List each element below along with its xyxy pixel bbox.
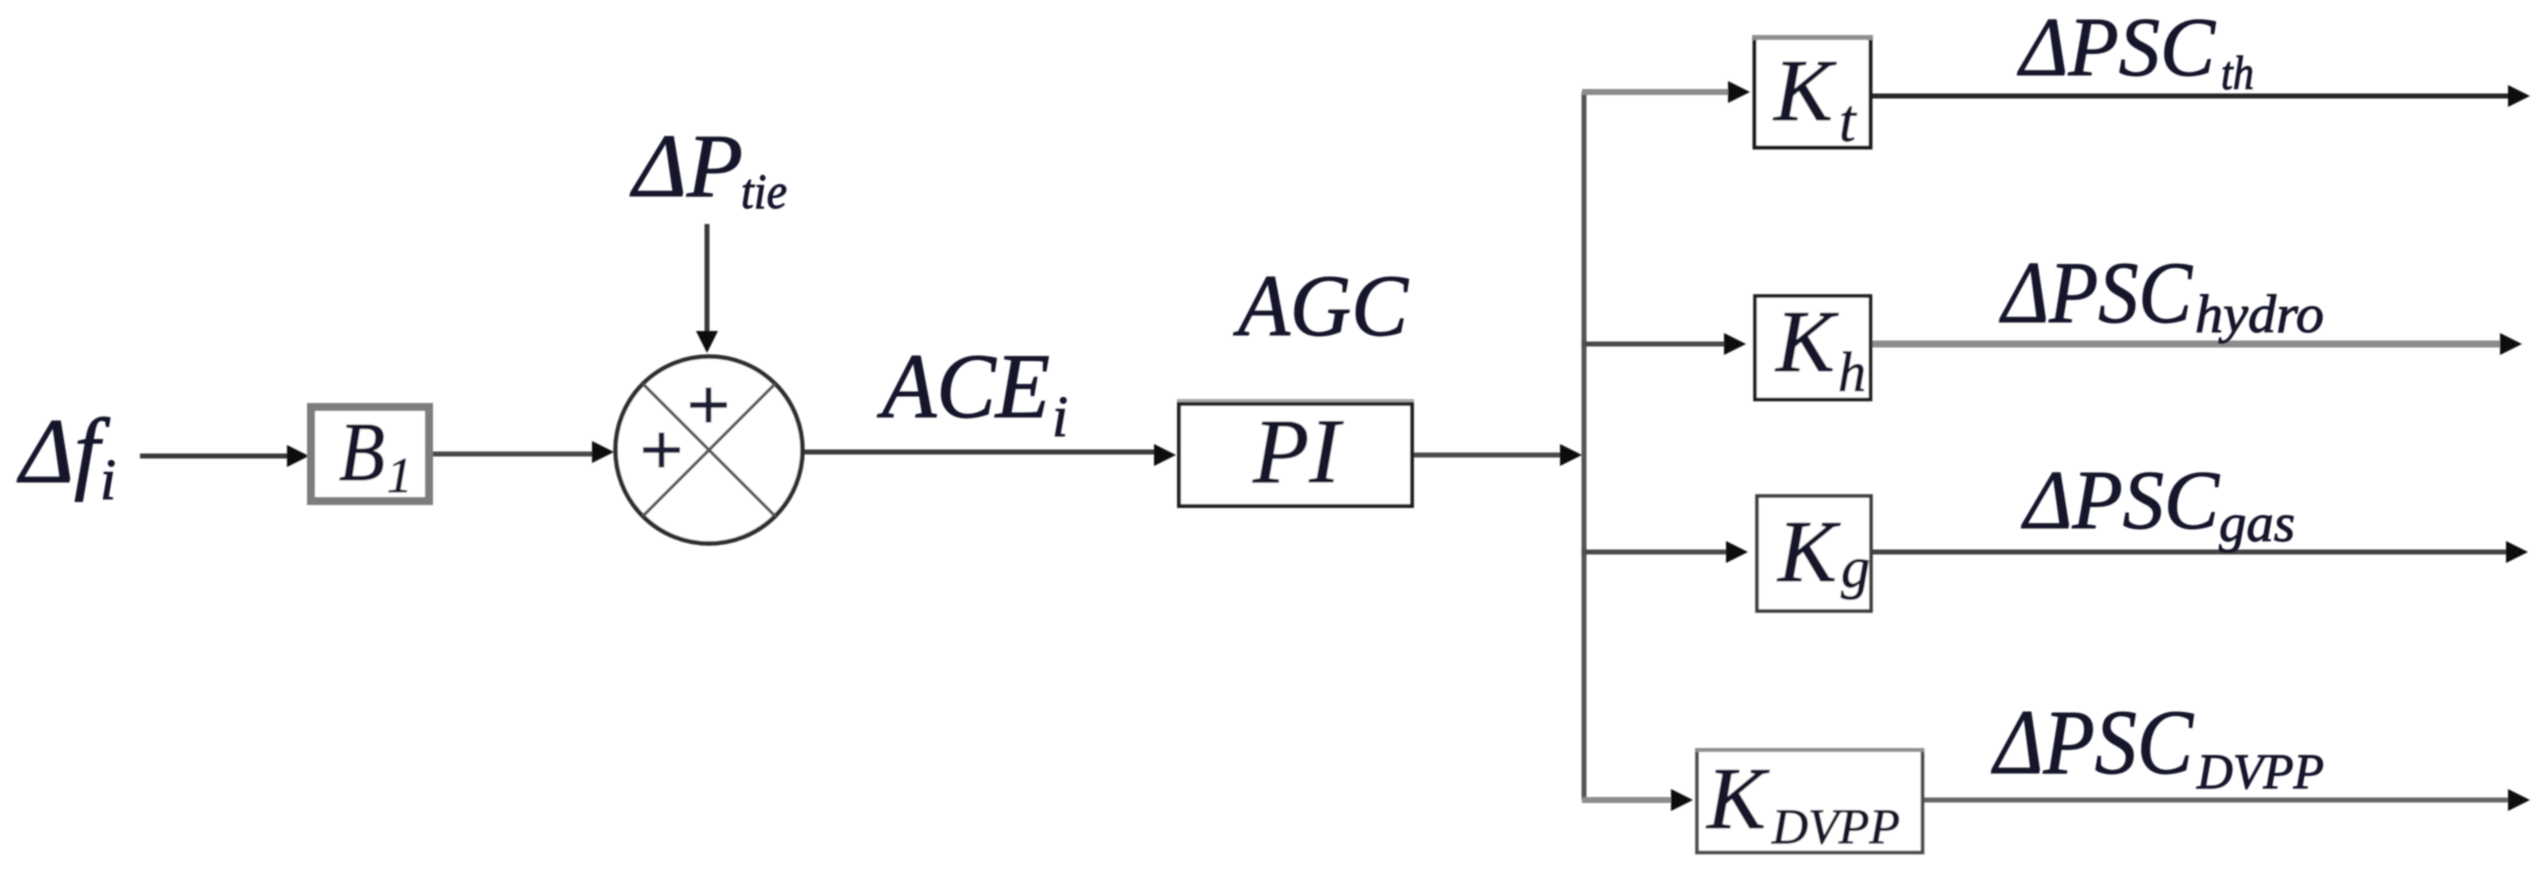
svg-text:gas: gas — [2219, 493, 2295, 553]
svg-text:DVPP: DVPP — [2196, 743, 2324, 799]
svg-text:B: B — [339, 406, 385, 499]
svg-text:th: th — [2221, 47, 2254, 100]
svg-text:DVPP: DVPP — [1771, 798, 1900, 854]
svg-text:h: h — [1838, 342, 1866, 404]
svg-text:PI: PI — [1252, 400, 1344, 502]
svg-text:t: t — [1839, 88, 1857, 154]
svg-text:K: K — [1774, 294, 1839, 391]
svg-text:K: K — [1776, 504, 1841, 601]
svg-text:ΔPSC: ΔPSC — [1990, 691, 2194, 793]
svg-text:ΔPSC: ΔPSC — [2017, 1, 2216, 94]
svg-text:i: i — [100, 447, 116, 512]
svg-text:ACE: ACE — [876, 335, 1050, 437]
svg-text:i: i — [1052, 384, 1068, 449]
svg-text:tie: tie — [741, 163, 787, 219]
svg-text:ΔP: ΔP — [630, 117, 743, 216]
svg-text:ΔPSC: ΔPSC — [1999, 245, 2193, 342]
svg-text:1: 1 — [387, 447, 412, 503]
svg-text:K: K — [1705, 751, 1770, 848]
svg-text:AGC: AGC — [1233, 258, 1409, 355]
svg-text:K: K — [1772, 43, 1837, 140]
svg-text:ΔPSC: ΔPSC — [2021, 454, 2220, 547]
svg-text:Δf: Δf — [16, 400, 111, 502]
svg-text:hydro: hydro — [2195, 284, 2324, 344]
svg-text:g: g — [1841, 535, 1870, 600]
